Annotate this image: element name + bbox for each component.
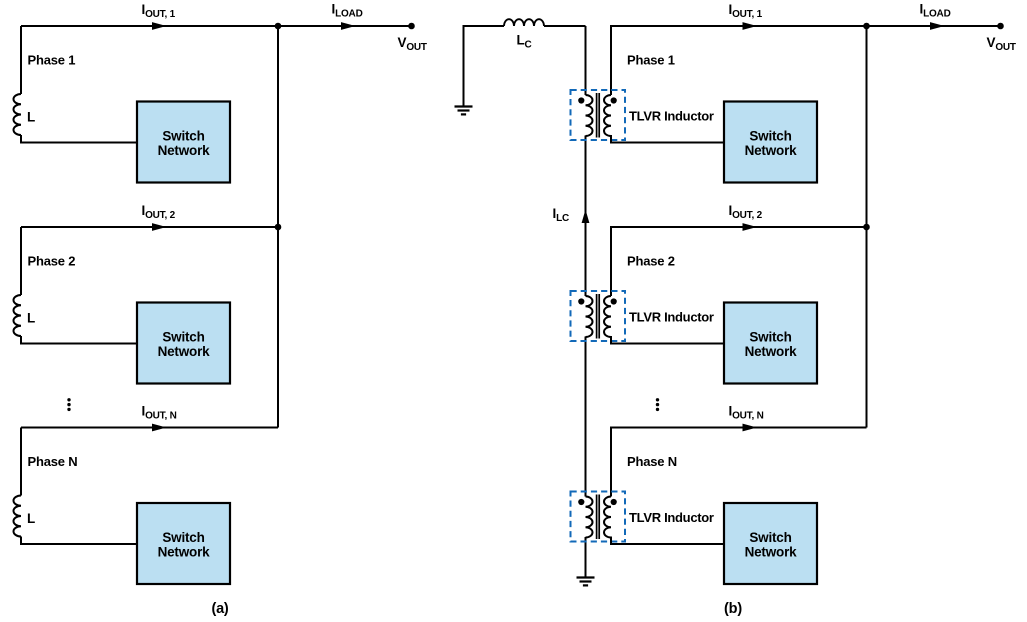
switch network box phase N (a) xyxy=(137,503,230,584)
svg-text:Phase N: Phase N xyxy=(28,454,78,469)
ellipsis: more phases (a) xyxy=(67,398,70,401)
svg-text:TLVR Inductor: TLVR Inductor xyxy=(629,109,714,124)
wire: output bus vertical (b) xyxy=(866,26,868,428)
svg-text:TLVR Inductor: TLVR Inductor xyxy=(629,510,714,525)
wire: phase 1 secondary output to bus (b) xyxy=(611,26,867,95)
wire: primary bus segment phase1-phase2 (b) xyxy=(585,136,587,297)
wire: Lc to primary bus (b) xyxy=(544,25,586,27)
wire: phase N output to bus (a) xyxy=(21,427,278,429)
node: junction phase 1 bus (a) xyxy=(275,23,282,30)
inductor Lc (b) xyxy=(504,19,544,26)
node: junction phase 2 bus (a) xyxy=(275,224,282,231)
node: V_OUT terminal (b) xyxy=(997,23,1004,30)
svg-text:L: L xyxy=(27,110,35,125)
svg-text:Network: Network xyxy=(158,545,211,560)
transformer TN primary polarity dot (b) xyxy=(578,499,584,505)
svg-text:Phase N: Phase N xyxy=(627,454,677,469)
wire: phase 2 secondary output to bus (b) xyxy=(611,227,867,296)
switch network box phase 1 (b) xyxy=(724,102,817,183)
wire: phase 1 output to bus node A (a) xyxy=(21,25,278,27)
svg-text:L: L xyxy=(27,511,35,526)
arrow: I_OUT,1 current direction (b) xyxy=(743,22,758,30)
wire: inductor bottom to switch network (a) phase 1 xyxy=(21,135,137,143)
node: junction phase 1 bus (b) xyxy=(863,23,870,30)
wire: load output (a) xyxy=(278,25,412,27)
arrow: I_LOAD direction (b) xyxy=(930,22,945,30)
inductor L phase N (a) xyxy=(14,496,21,537)
node: V_OUT terminal (a) xyxy=(408,23,415,30)
svg-text:(b): (b) xyxy=(724,601,742,617)
svg-text:Phase 1: Phase 1 xyxy=(28,53,76,68)
inductor L phase 2 (a) xyxy=(14,295,21,336)
svg-text:Switch: Switch xyxy=(749,129,791,144)
arrow: I_OUT,2 current direction (a) xyxy=(152,223,167,231)
arrow: I_LC direction up (b) xyxy=(582,210,590,224)
arrow: I_OUT,N current direction (a) xyxy=(152,424,167,432)
switch network box phase N (b) xyxy=(724,503,817,584)
wire: primary bus segment phase2-phaseN (b) xyxy=(585,337,587,497)
transformer T1 primary winding (b) xyxy=(586,95,593,136)
svg-text:Phase 1: Phase 1 xyxy=(627,53,675,68)
wire: phase 1 left vertical drop to inductor (a) xyxy=(20,26,22,94)
transformer TN secondary winding (b) xyxy=(604,497,611,538)
svg-text:L: L xyxy=(27,311,35,326)
svg-text:Switch: Switch xyxy=(162,129,204,144)
svg-text:Phase 2: Phase 2 xyxy=(28,254,76,269)
svg-text:Switch: Switch xyxy=(749,530,791,545)
transformer T1 secondary winding (b) xyxy=(604,95,611,136)
transformer T1 primary polarity dot (b) xyxy=(578,97,584,103)
wire: phase 2 left vertical drop to inductor (a) xyxy=(20,227,22,295)
wire: secondary bottom to switch network (b) phase N xyxy=(611,537,724,545)
svg-text:Switch: Switch xyxy=(162,530,204,545)
TLVR transformer T1 dashed outline (b) xyxy=(571,90,626,140)
switch network box phase 2 (b) xyxy=(724,303,817,384)
arrow: I_LOAD direction (a) xyxy=(341,22,356,30)
wire: inductor bottom to switch network (a) phase 2 xyxy=(21,336,137,344)
transformer TN secondary polarity dot (b) xyxy=(611,499,617,505)
wire: primary bus top segment (b) xyxy=(585,26,587,95)
svg-text:Network: Network xyxy=(745,545,798,560)
transformer T1 secondary polarity dot (b) xyxy=(611,97,617,103)
wire: output bus vertical (a) xyxy=(277,26,279,428)
node: junction phase 2 bus (b) xyxy=(863,224,870,231)
transformer T2 secondary winding (b) xyxy=(604,296,611,337)
arrow: I_OUT,N current direction (b) xyxy=(743,424,758,432)
wire: primary bus bottom segment to ground (b) xyxy=(585,537,587,578)
transformer T2 primary polarity dot (b) xyxy=(578,298,584,304)
transformer TN primary winding (b) xyxy=(586,497,593,538)
svg-text:Phase 2: Phase 2 xyxy=(627,254,675,269)
ground: Lc input ground (b) xyxy=(455,107,473,115)
wire: phase 2 output to bus (a) xyxy=(21,226,278,228)
wire: phase N left vertical drop to inductor (a) xyxy=(20,428,22,496)
ellipsis: more phases (b) xyxy=(656,398,659,401)
arrow: I_OUT,1 current direction (a) xyxy=(152,22,167,30)
transformer T1 core (b) xyxy=(597,93,600,138)
wire: secondary bottom to switch network (b) phase 1 xyxy=(611,135,724,143)
transformer TN core (b) xyxy=(597,495,600,540)
ground: primary bus bottom ground (b) xyxy=(577,578,595,586)
inductor L phase 1 (a) xyxy=(14,94,21,135)
svg-text:Network: Network xyxy=(158,143,211,158)
wire: phase N secondary output to bus (b) xyxy=(611,428,867,497)
arrow: I_OUT,2 current direction (b) xyxy=(743,223,758,231)
switch network box phase 1 (a) xyxy=(137,102,230,183)
wire: load output (b) xyxy=(867,25,1001,27)
TLVR transformer TN dashed outline (b) xyxy=(571,492,626,542)
transformer T2 primary winding (b) xyxy=(586,296,593,337)
svg-text:Switch: Switch xyxy=(162,330,204,345)
svg-text:(a): (a) xyxy=(211,601,228,617)
svg-text:TLVR Inductor: TLVR Inductor xyxy=(629,310,714,325)
TLVR transformer T2 dashed outline (b) xyxy=(571,291,626,341)
wire: inductor bottom to switch network (a) phase N xyxy=(21,537,137,545)
svg-text:Network: Network xyxy=(158,344,211,359)
svg-text:Network: Network xyxy=(745,344,798,359)
svg-text:Switch: Switch xyxy=(749,330,791,345)
wire: ground riser to Lc (b) xyxy=(464,26,505,106)
transformer T2 core (b) xyxy=(597,294,600,339)
switch network box phase 2 (a) xyxy=(137,303,230,384)
svg-text:Network: Network xyxy=(745,143,798,158)
transformer T2 secondary polarity dot (b) xyxy=(611,298,617,304)
wire: secondary bottom to switch network (b) phase 2 xyxy=(611,336,724,344)
